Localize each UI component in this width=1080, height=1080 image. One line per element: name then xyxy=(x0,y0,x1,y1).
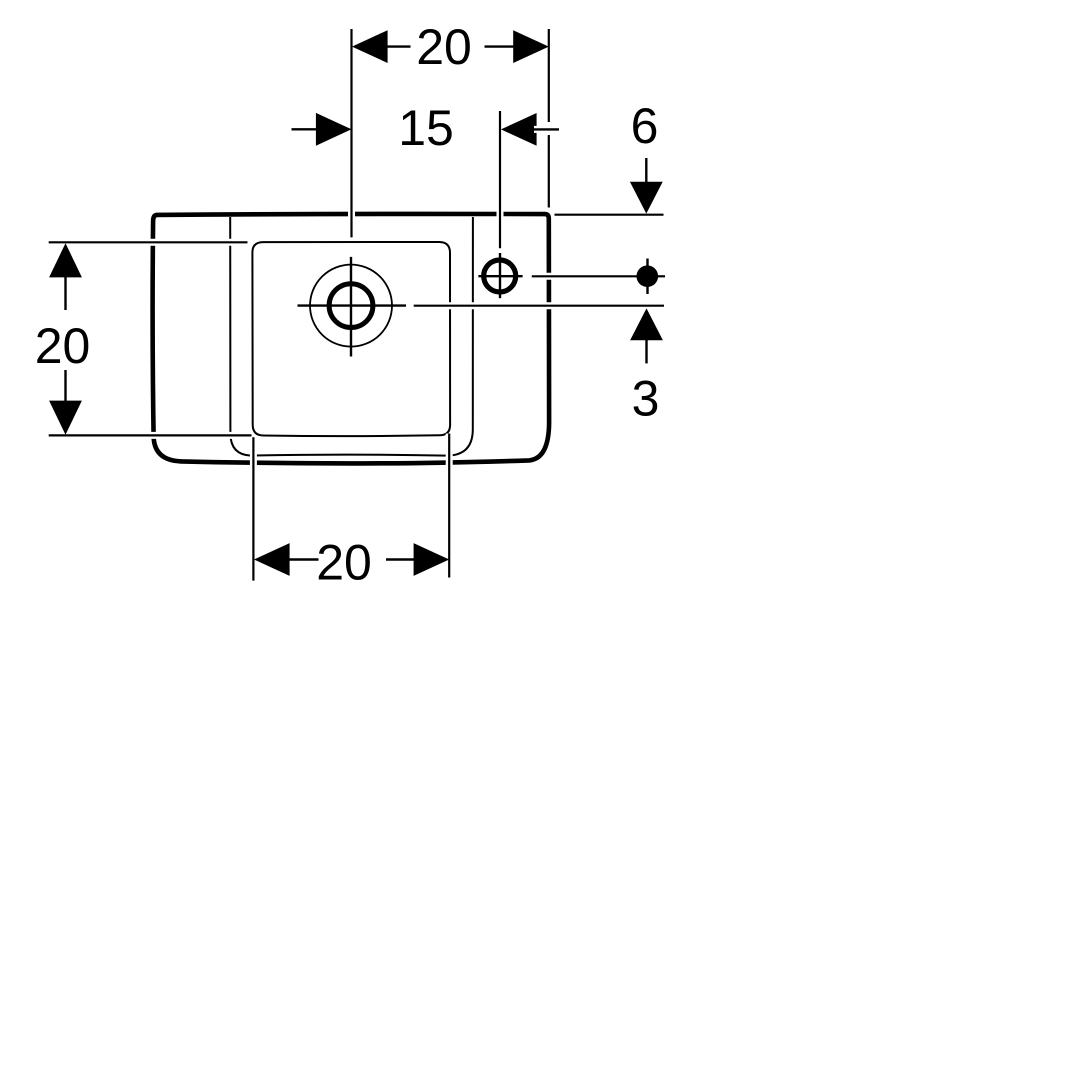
left extension line top (inner basin top) xyxy=(49,239,248,246)
svg-text:6: 6 xyxy=(631,98,659,154)
drain crosshair horizontal xyxy=(298,304,407,306)
extension line vertical from faucet hole up to 15 dimension xyxy=(497,111,504,248)
extension line vertical from drain center up to top dimension xyxy=(348,29,355,237)
dimension 20 top: left arrow xyxy=(352,30,411,63)
drain centerline extension to right xyxy=(414,302,664,309)
dimension 3: up arrow xyxy=(630,308,663,363)
left extension line bottom (inner basin bottom) xyxy=(49,432,252,439)
faucet centerline extension to dot xyxy=(532,273,665,280)
dimension 20 bottom: left arrow xyxy=(254,543,319,576)
basin outer outline xyxy=(153,214,550,463)
svg-text:15: 15 xyxy=(398,100,454,156)
svg-text:20: 20 xyxy=(35,318,91,374)
top edge extension line to right for 6 dimension xyxy=(555,214,664,216)
dimension 20 left: down arrow xyxy=(49,370,82,435)
svg-text:20: 20 xyxy=(416,19,472,75)
faucet crosshair vertical xyxy=(499,253,501,298)
drain outer thin circle xyxy=(310,265,392,347)
dimension 20 left: up arrow xyxy=(49,243,82,310)
drain inner thick circle xyxy=(329,284,373,328)
inner basin bowl outline xyxy=(252,242,450,436)
extension line vertical right edge for top 20 dimension xyxy=(548,29,550,122)
dimension 6: down arrow xyxy=(630,158,663,214)
basin rim line (inner offset, U shape) xyxy=(230,217,473,456)
svg-text:20: 20 xyxy=(316,535,372,591)
dimension 15: right arrow xyxy=(501,113,559,146)
faucet centerline dot marker xyxy=(637,259,659,295)
faucet hole circle xyxy=(484,260,516,292)
faucet crosshair horizontal xyxy=(478,275,522,277)
bottom extension line left (inner basin left) xyxy=(250,437,257,580)
dimension 20 bottom: right arrow xyxy=(386,543,449,576)
bottom extension line right (inner basin right) xyxy=(446,434,453,578)
svg-text:3: 3 xyxy=(632,371,660,427)
drain crosshair vertical xyxy=(350,257,352,357)
dimension 20 top: right arrow xyxy=(485,30,549,63)
dimension 15: left arrow xyxy=(292,113,352,146)
